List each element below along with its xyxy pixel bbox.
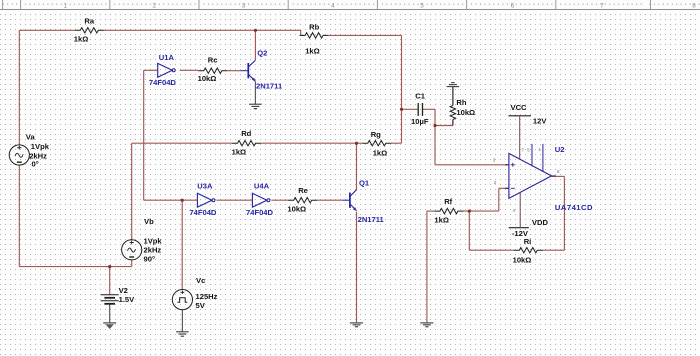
svg-text:VCC: VCC [511, 103, 528, 112]
svg-text:Ri: Ri [524, 237, 532, 246]
svg-text:3: 3 [242, 3, 246, 10]
svg-text:C1: C1 [415, 92, 425, 101]
svg-text:U2: U2 [555, 145, 565, 154]
svg-text:10kΩ: 10kΩ [198, 74, 217, 83]
svg-text:Ra: Ra [84, 17, 94, 26]
svg-text:Rc: Rc [208, 55, 218, 64]
svg-text:90°: 90° [144, 254, 155, 263]
svg-text:Vc: Vc [196, 276, 205, 285]
svg-text:V2: V2 [119, 286, 128, 295]
svg-text:1Vpk: 1Vpk [144, 236, 163, 245]
svg-text:1kΩ: 1kΩ [305, 46, 320, 55]
svg-text:10kΩ: 10kΩ [513, 255, 532, 264]
svg-text:1Vpk: 1Vpk [31, 142, 50, 151]
svg-text:1kΩ: 1kΩ [74, 35, 89, 44]
svg-text:7: 7 [600, 3, 604, 10]
svg-text:1: 1 [63, 3, 67, 10]
svg-text:12V: 12V [533, 116, 547, 125]
svg-text:2: 2 [153, 3, 157, 10]
svg-text:1.5V: 1.5V [119, 295, 136, 304]
svg-text:UA741CD: UA741CD [555, 203, 593, 212]
svg-text:6: 6 [511, 3, 515, 10]
svg-text:Rd: Rd [241, 129, 251, 138]
svg-text:2N1711: 2N1711 [256, 82, 283, 91]
svg-text:Rf: Rf [444, 197, 452, 206]
svg-text:2N1711: 2N1711 [358, 215, 385, 224]
svg-text:10kΩ: 10kΩ [287, 205, 306, 214]
svg-text:10µF: 10µF [411, 117, 429, 126]
svg-text:5V: 5V [196, 301, 206, 310]
svg-text:10kΩ: 10kΩ [456, 108, 475, 117]
svg-text:U1A: U1A [159, 53, 175, 62]
svg-text:5: 5 [420, 3, 424, 10]
svg-text:Q2: Q2 [257, 49, 267, 58]
svg-text:8: 8 [692, 3, 696, 10]
svg-text:0°: 0° [32, 159, 39, 168]
svg-text:Rg: Rg [371, 130, 381, 139]
svg-text:125Hz: 125Hz [196, 292, 218, 301]
svg-text:1kΩ: 1kΩ [373, 148, 388, 157]
svg-text:-12V: -12V [512, 229, 529, 238]
svg-text:74F04D: 74F04D [149, 78, 177, 87]
svg-text:VDD: VDD [532, 218, 549, 227]
svg-text:4: 4 [331, 3, 335, 10]
svg-text:U3A: U3A [197, 182, 213, 191]
svg-text:74F04D: 74F04D [189, 208, 217, 217]
svg-text:1kΩ: 1kΩ [232, 147, 247, 156]
svg-text:U4A: U4A [254, 182, 270, 191]
svg-text:2kHz: 2kHz [144, 245, 162, 254]
svg-text:Rb: Rb [309, 23, 319, 32]
svg-text:74F04D: 74F04D [246, 208, 274, 217]
svg-text:Vb: Vb [144, 217, 154, 226]
svg-text:Va: Va [26, 133, 36, 142]
svg-text:Re: Re [298, 186, 308, 195]
svg-text:Rh: Rh [456, 98, 466, 107]
svg-text:1kΩ: 1kΩ [434, 216, 449, 225]
svg-text:Q1: Q1 [359, 179, 370, 188]
